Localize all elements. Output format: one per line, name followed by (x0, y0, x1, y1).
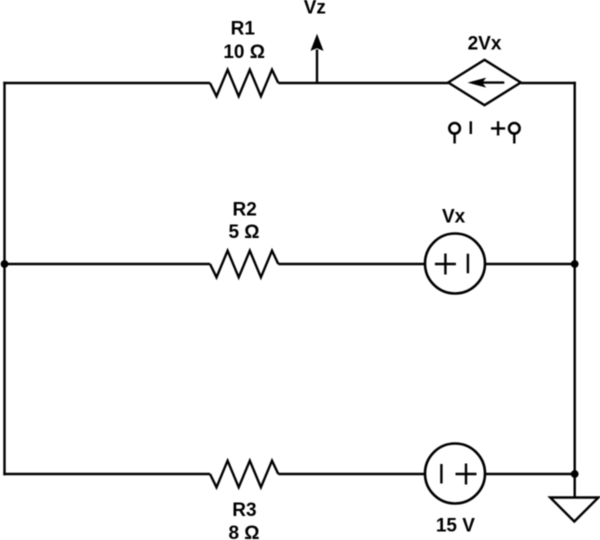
svg-text:R1: R1 (231, 19, 256, 40)
voltage source V1 15V circle (425, 444, 485, 504)
svg-text:8 Ω: 8 Ω (228, 523, 259, 540)
svg-text:Vx: Vx (442, 207, 466, 228)
terminal positive stem (513, 134, 515, 144)
wire: middle row, Vx to right wire (485, 263, 575, 265)
wire: left vertical upper segment (3, 82, 5, 264)
plus sign of 2Vx (491, 121, 505, 135)
wire: bottom row, 15V to right wire (485, 473, 575, 475)
node junction dot right-middle (571, 260, 579, 268)
ground symbol (550, 498, 598, 522)
wire: top row, left of R1 (3, 82, 210, 84)
node Vz arrowhead (311, 34, 324, 51)
arrow line inside 2Vx (479, 81, 504, 83)
wire: bottom row, R3 to 15V source (278, 473, 425, 475)
svg-text:R3: R3 (232, 500, 256, 521)
arrowhead inside 2Vx (468, 78, 487, 88)
resistor R3 (210, 461, 278, 488)
node junction dot left-middle (1, 260, 9, 268)
svg-text:Vz: Vz (304, 0, 326, 19)
voltage source Vx circle (425, 234, 485, 294)
wire: right vertical to ground (574, 474, 576, 498)
wire: right vertical upper segment (574, 82, 576, 264)
svg-text:5 Ω: 5 Ω (228, 222, 259, 243)
terminal negative stem (453, 134, 455, 144)
node junction dot right-bottom (571, 470, 579, 478)
svg-text:15 V: 15 V (436, 515, 475, 536)
resistor R2 (210, 251, 278, 278)
plus sign inside 15V (456, 464, 477, 485)
wire: top row, R1 to 2Vx (278, 82, 448, 84)
terminal positive of 2Vx (lollipop) (509, 123, 520, 134)
svg-text:R2: R2 (233, 199, 257, 220)
minus bar inside Vx (467, 254, 469, 274)
wire: left vertical lower segment (3, 264, 5, 475)
node Vz arrow shaft (316, 50, 318, 84)
resistor R1 (210, 70, 278, 97)
svg-text:2Vx: 2Vx (468, 33, 502, 54)
wire: bottom row, left of R3 (3, 473, 210, 475)
svg-text:10 Ω: 10 Ω (223, 42, 265, 63)
wire: right vertical lower segment (574, 264, 576, 474)
wire: top row, 2Vx to right corner (521, 82, 576, 84)
wire: middle row, left of R2 (5, 263, 211, 265)
minus bar inside 15V (440, 464, 442, 484)
plus sign inside Vx (435, 254, 456, 275)
minus sign (rotated bar) of 2Vx (470, 121, 472, 134)
dependent source U1 2Vx diamond (448, 60, 521, 105)
wire: middle row, R2 to Vx source (278, 263, 425, 265)
terminal negative of 2Vx (lollipop) (449, 123, 460, 134)
